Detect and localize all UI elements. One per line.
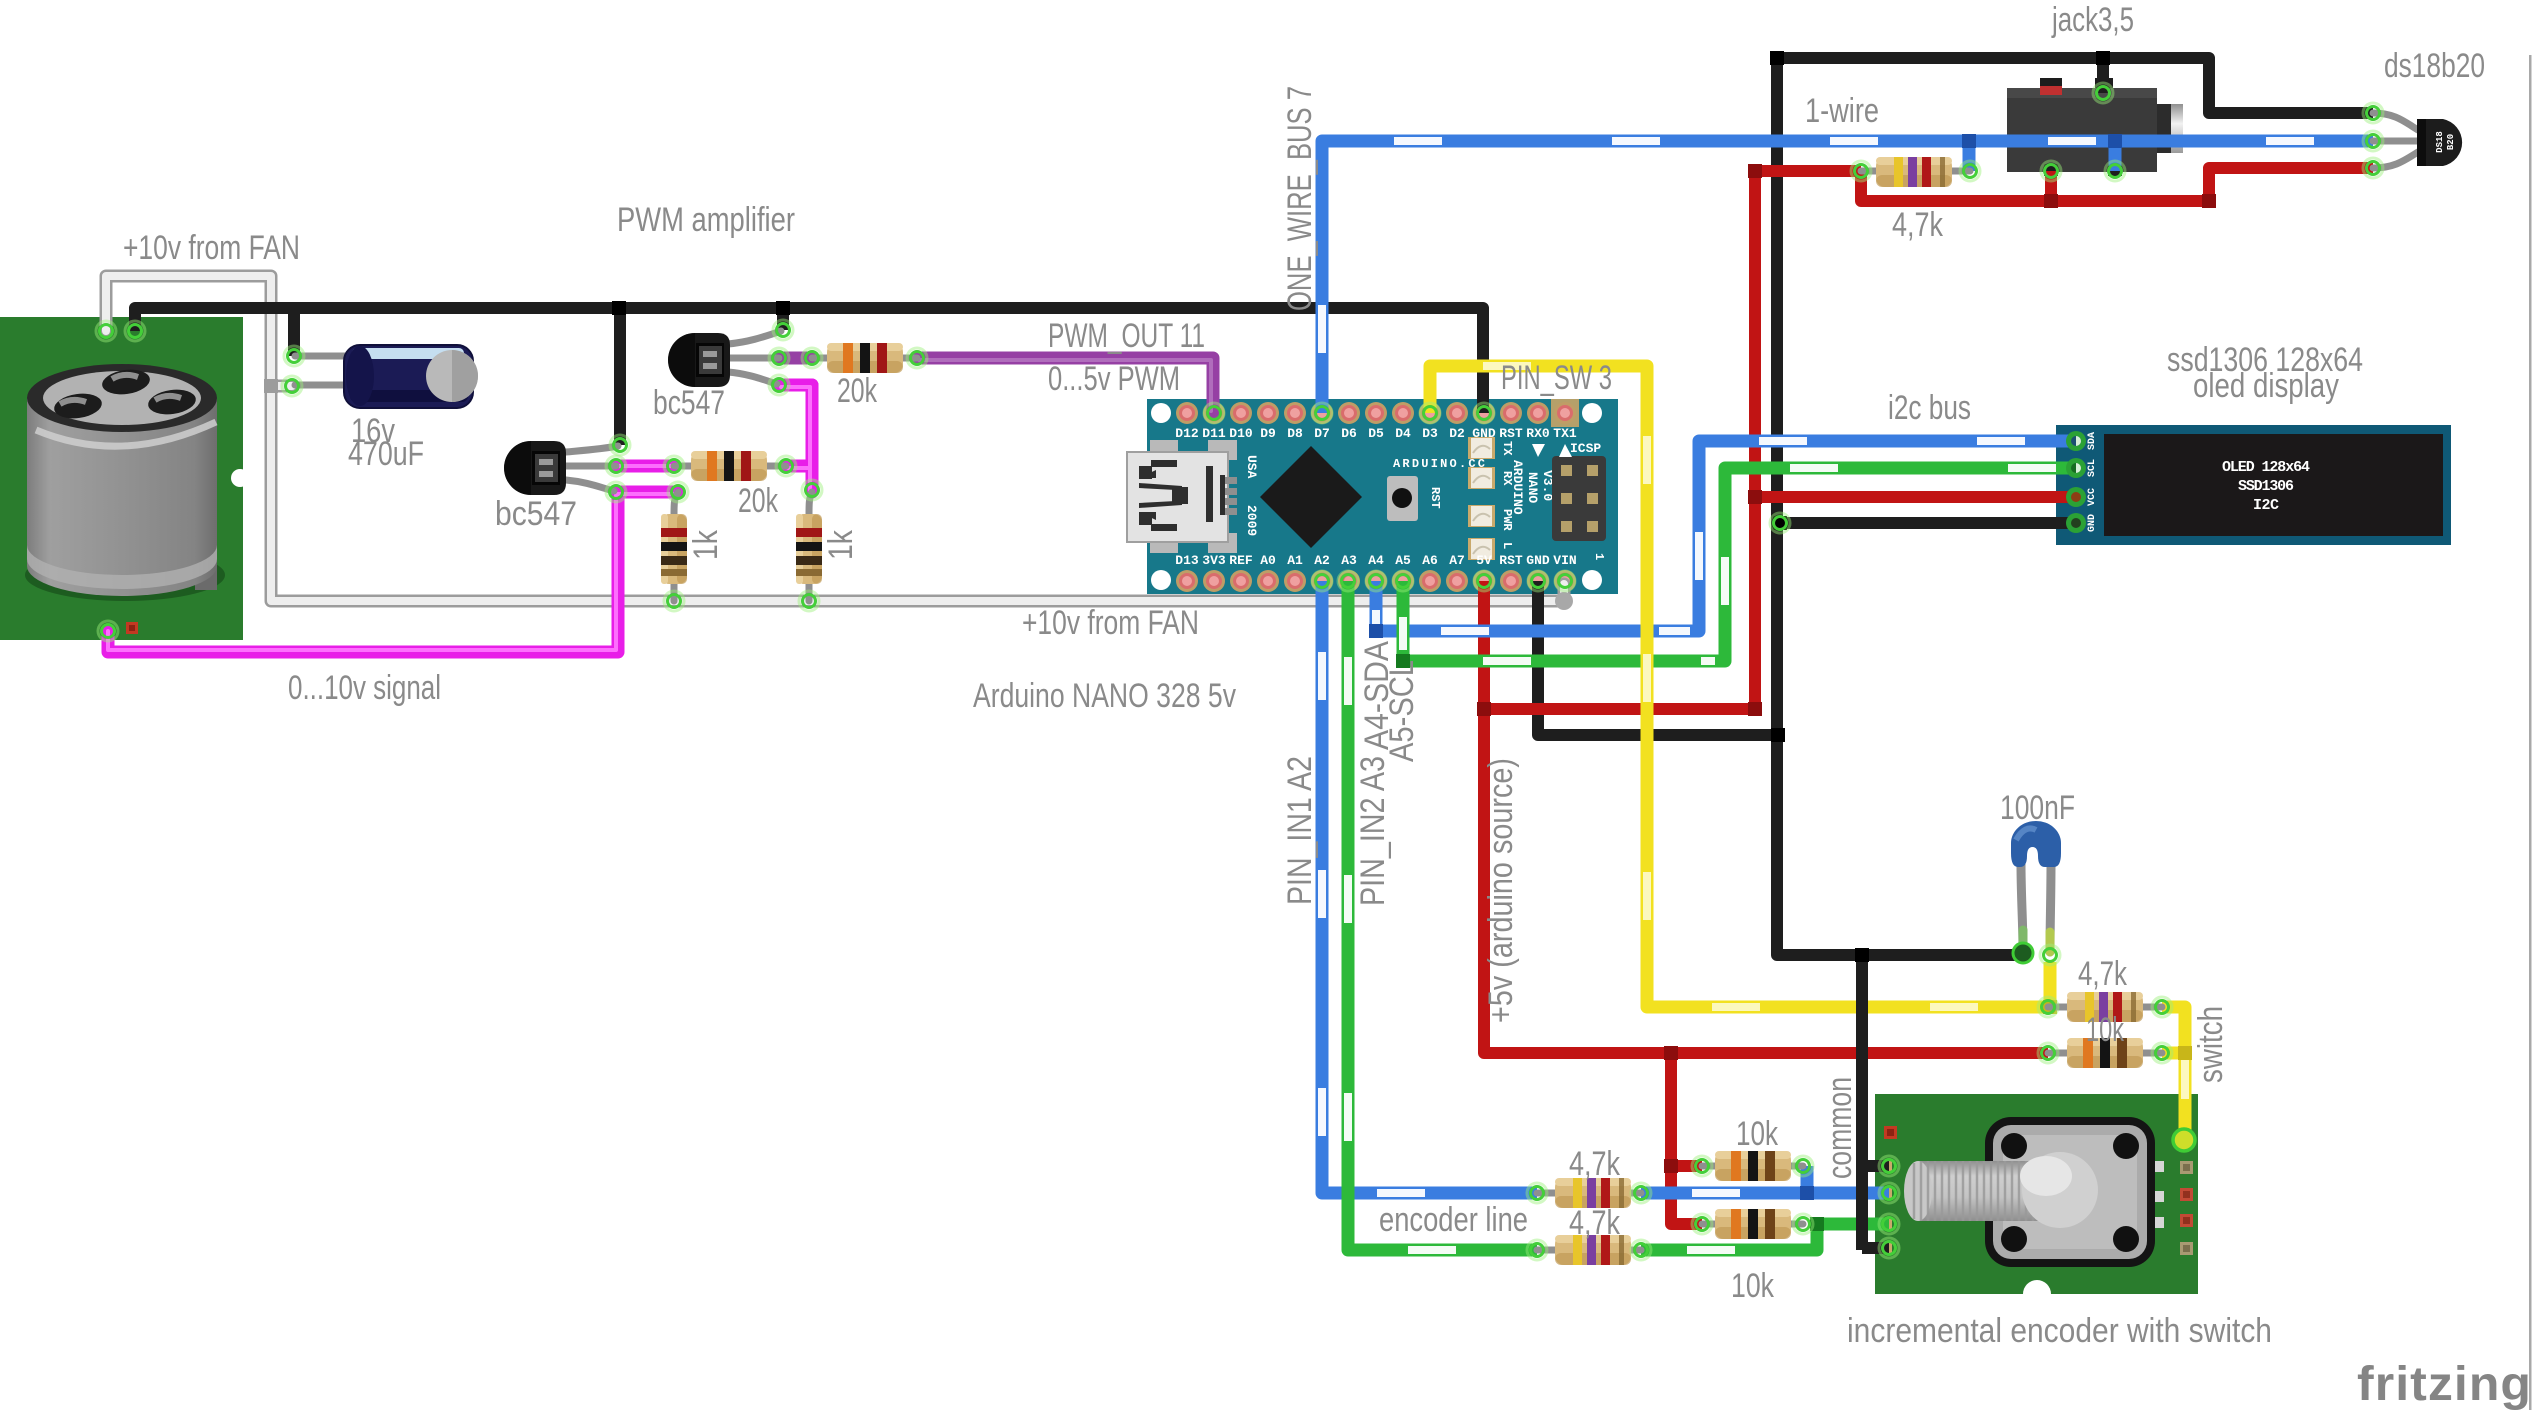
svg-text:1: 1	[1592, 553, 1606, 560]
svg-text:470uF: 470uF	[348, 435, 424, 473]
svg-text:A4: A4	[1368, 553, 1384, 568]
svg-text:2009: 2009	[1244, 505, 1259, 536]
svg-text:D5: D5	[1368, 426, 1384, 441]
svg-text:B20: B20	[2446, 134, 2456, 150]
svg-text:VIN: VIN	[1553, 553, 1576, 568]
svg-text:REF: REF	[1229, 553, 1253, 568]
svg-text:bc547: bc547	[495, 495, 577, 533]
svg-text:Arduino NANO 328 5v: Arduino NANO 328 5v	[973, 677, 1236, 715]
svg-text:SDA: SDA	[2087, 432, 2098, 450]
svg-text:+10v from FAN: +10v from FAN	[1022, 604, 1199, 642]
svg-text:switch: switch	[2192, 1006, 2230, 1083]
svg-text:D9: D9	[1260, 426, 1276, 441]
svg-text:GND: GND	[1472, 426, 1496, 441]
svg-text:D11: D11	[1202, 426, 1226, 441]
svg-text:D8: D8	[1287, 426, 1303, 441]
svg-text:4,7k: 4,7k	[2078, 955, 2128, 993]
svg-text:PIN_IN2 A3: PIN_IN2 A3	[1354, 756, 1392, 906]
svg-text:GND: GND	[2087, 514, 2098, 532]
svg-text:A2: A2	[1314, 553, 1330, 568]
svg-text:L: L	[1500, 542, 1514, 549]
svg-text:A7: A7	[1449, 553, 1465, 568]
svg-text:TX1: TX1	[1553, 426, 1577, 441]
svg-text:USA: USA	[1244, 455, 1259, 479]
svg-text:encoder line: encoder line	[1379, 1201, 1528, 1239]
svg-text:D10: D10	[1229, 426, 1253, 441]
svg-text:5V: 5V	[1476, 553, 1492, 568]
svg-text:100nF: 100nF	[2000, 789, 2075, 827]
svg-text:bc547: bc547	[653, 384, 725, 422]
svg-text:RST: RST	[1428, 487, 1442, 509]
svg-text:PWM_OUT 11: PWM_OUT 11	[1048, 317, 1205, 355]
svg-text:D6: D6	[1341, 426, 1357, 441]
svg-text:GND: GND	[1526, 553, 1550, 568]
svg-text:10k: 10k	[1731, 1267, 1775, 1305]
svg-text:4,7k: 4,7k	[1892, 206, 1944, 244]
svg-text:A0: A0	[1260, 553, 1276, 568]
svg-text:0...10v signal: 0...10v signal	[288, 669, 441, 707]
svg-text:A1: A1	[1287, 553, 1303, 568]
svg-text:ICSP: ICSP	[1570, 441, 1601, 456]
svg-text:PWM amplifier: PWM amplifier	[617, 201, 795, 239]
svg-text:I2C: I2C	[2253, 497, 2279, 514]
svg-text:common: common	[1821, 1077, 1859, 1179]
svg-text:10k: 10k	[2086, 1011, 2125, 1049]
svg-text:oled display: oled display	[2193, 367, 2339, 405]
svg-text:DS18: DS18	[2435, 131, 2445, 153]
svg-text:A6: A6	[1422, 553, 1438, 568]
svg-text:SSD1306: SSD1306	[2238, 478, 2294, 495]
svg-text:20k: 20k	[738, 482, 779, 520]
svg-text:+5v (arduino source): +5v (arduino source)	[1482, 758, 1520, 1023]
svg-text:1k: 1k	[822, 529, 860, 560]
svg-text:3V3: 3V3	[1202, 553, 1226, 568]
svg-text:RST: RST	[1499, 553, 1523, 568]
svg-text:D3: D3	[1422, 426, 1438, 441]
svg-text:ONE_WIRE_BUS 7: ONE_WIRE_BUS 7	[1281, 86, 1319, 311]
svg-text:ARDUINO: ARDUINO	[1510, 460, 1525, 515]
svg-text:0...5v PWM: 0...5v PWM	[1048, 360, 1180, 398]
svg-text:4,7k: 4,7k	[1569, 1204, 1621, 1242]
svg-text:PIN_IN1 A2: PIN_IN1 A2	[1281, 756, 1319, 905]
svg-text:D7: D7	[1314, 426, 1330, 441]
svg-text:+10v from FAN: +10v from FAN	[123, 229, 300, 267]
svg-text:fritzing: fritzing	[2357, 1358, 2532, 1410]
svg-text:TX: TX	[1500, 441, 1514, 456]
svg-text:D13: D13	[1175, 553, 1199, 568]
svg-text:RST: RST	[1499, 426, 1523, 441]
svg-text:A3: A3	[1341, 553, 1357, 568]
svg-text:incremental encoder with switc: incremental encoder with switch	[1847, 1312, 2272, 1350]
svg-text:D4: D4	[1395, 426, 1411, 441]
svg-text:i2c bus: i2c bus	[1888, 389, 1971, 427]
svg-text:A5: A5	[1395, 553, 1411, 568]
svg-text:D12: D12	[1175, 426, 1199, 441]
svg-text:4,7k: 4,7k	[1569, 1145, 1621, 1183]
svg-text:A5-SCL: A5-SCL	[1383, 660, 1421, 762]
svg-text:RX0: RX0	[1526, 426, 1550, 441]
svg-text:ds18b20: ds18b20	[2384, 47, 2485, 85]
svg-text:10k: 10k	[1736, 1115, 1779, 1153]
svg-text:SCL: SCL	[2087, 459, 2098, 477]
svg-text:D2: D2	[1449, 426, 1465, 441]
svg-text:jack3,5: jack3,5	[2051, 1, 2134, 39]
svg-text:1k: 1k	[687, 529, 725, 560]
svg-text:OLED 128x64: OLED 128x64	[2222, 459, 2310, 476]
svg-text:PIN_SW 3: PIN_SW 3	[1501, 359, 1612, 397]
svg-text:1-wire: 1-wire	[1805, 92, 1879, 130]
svg-text:NANO: NANO	[1525, 472, 1540, 503]
svg-text:VCC: VCC	[2087, 488, 2098, 506]
svg-text:20k: 20k	[837, 372, 878, 410]
